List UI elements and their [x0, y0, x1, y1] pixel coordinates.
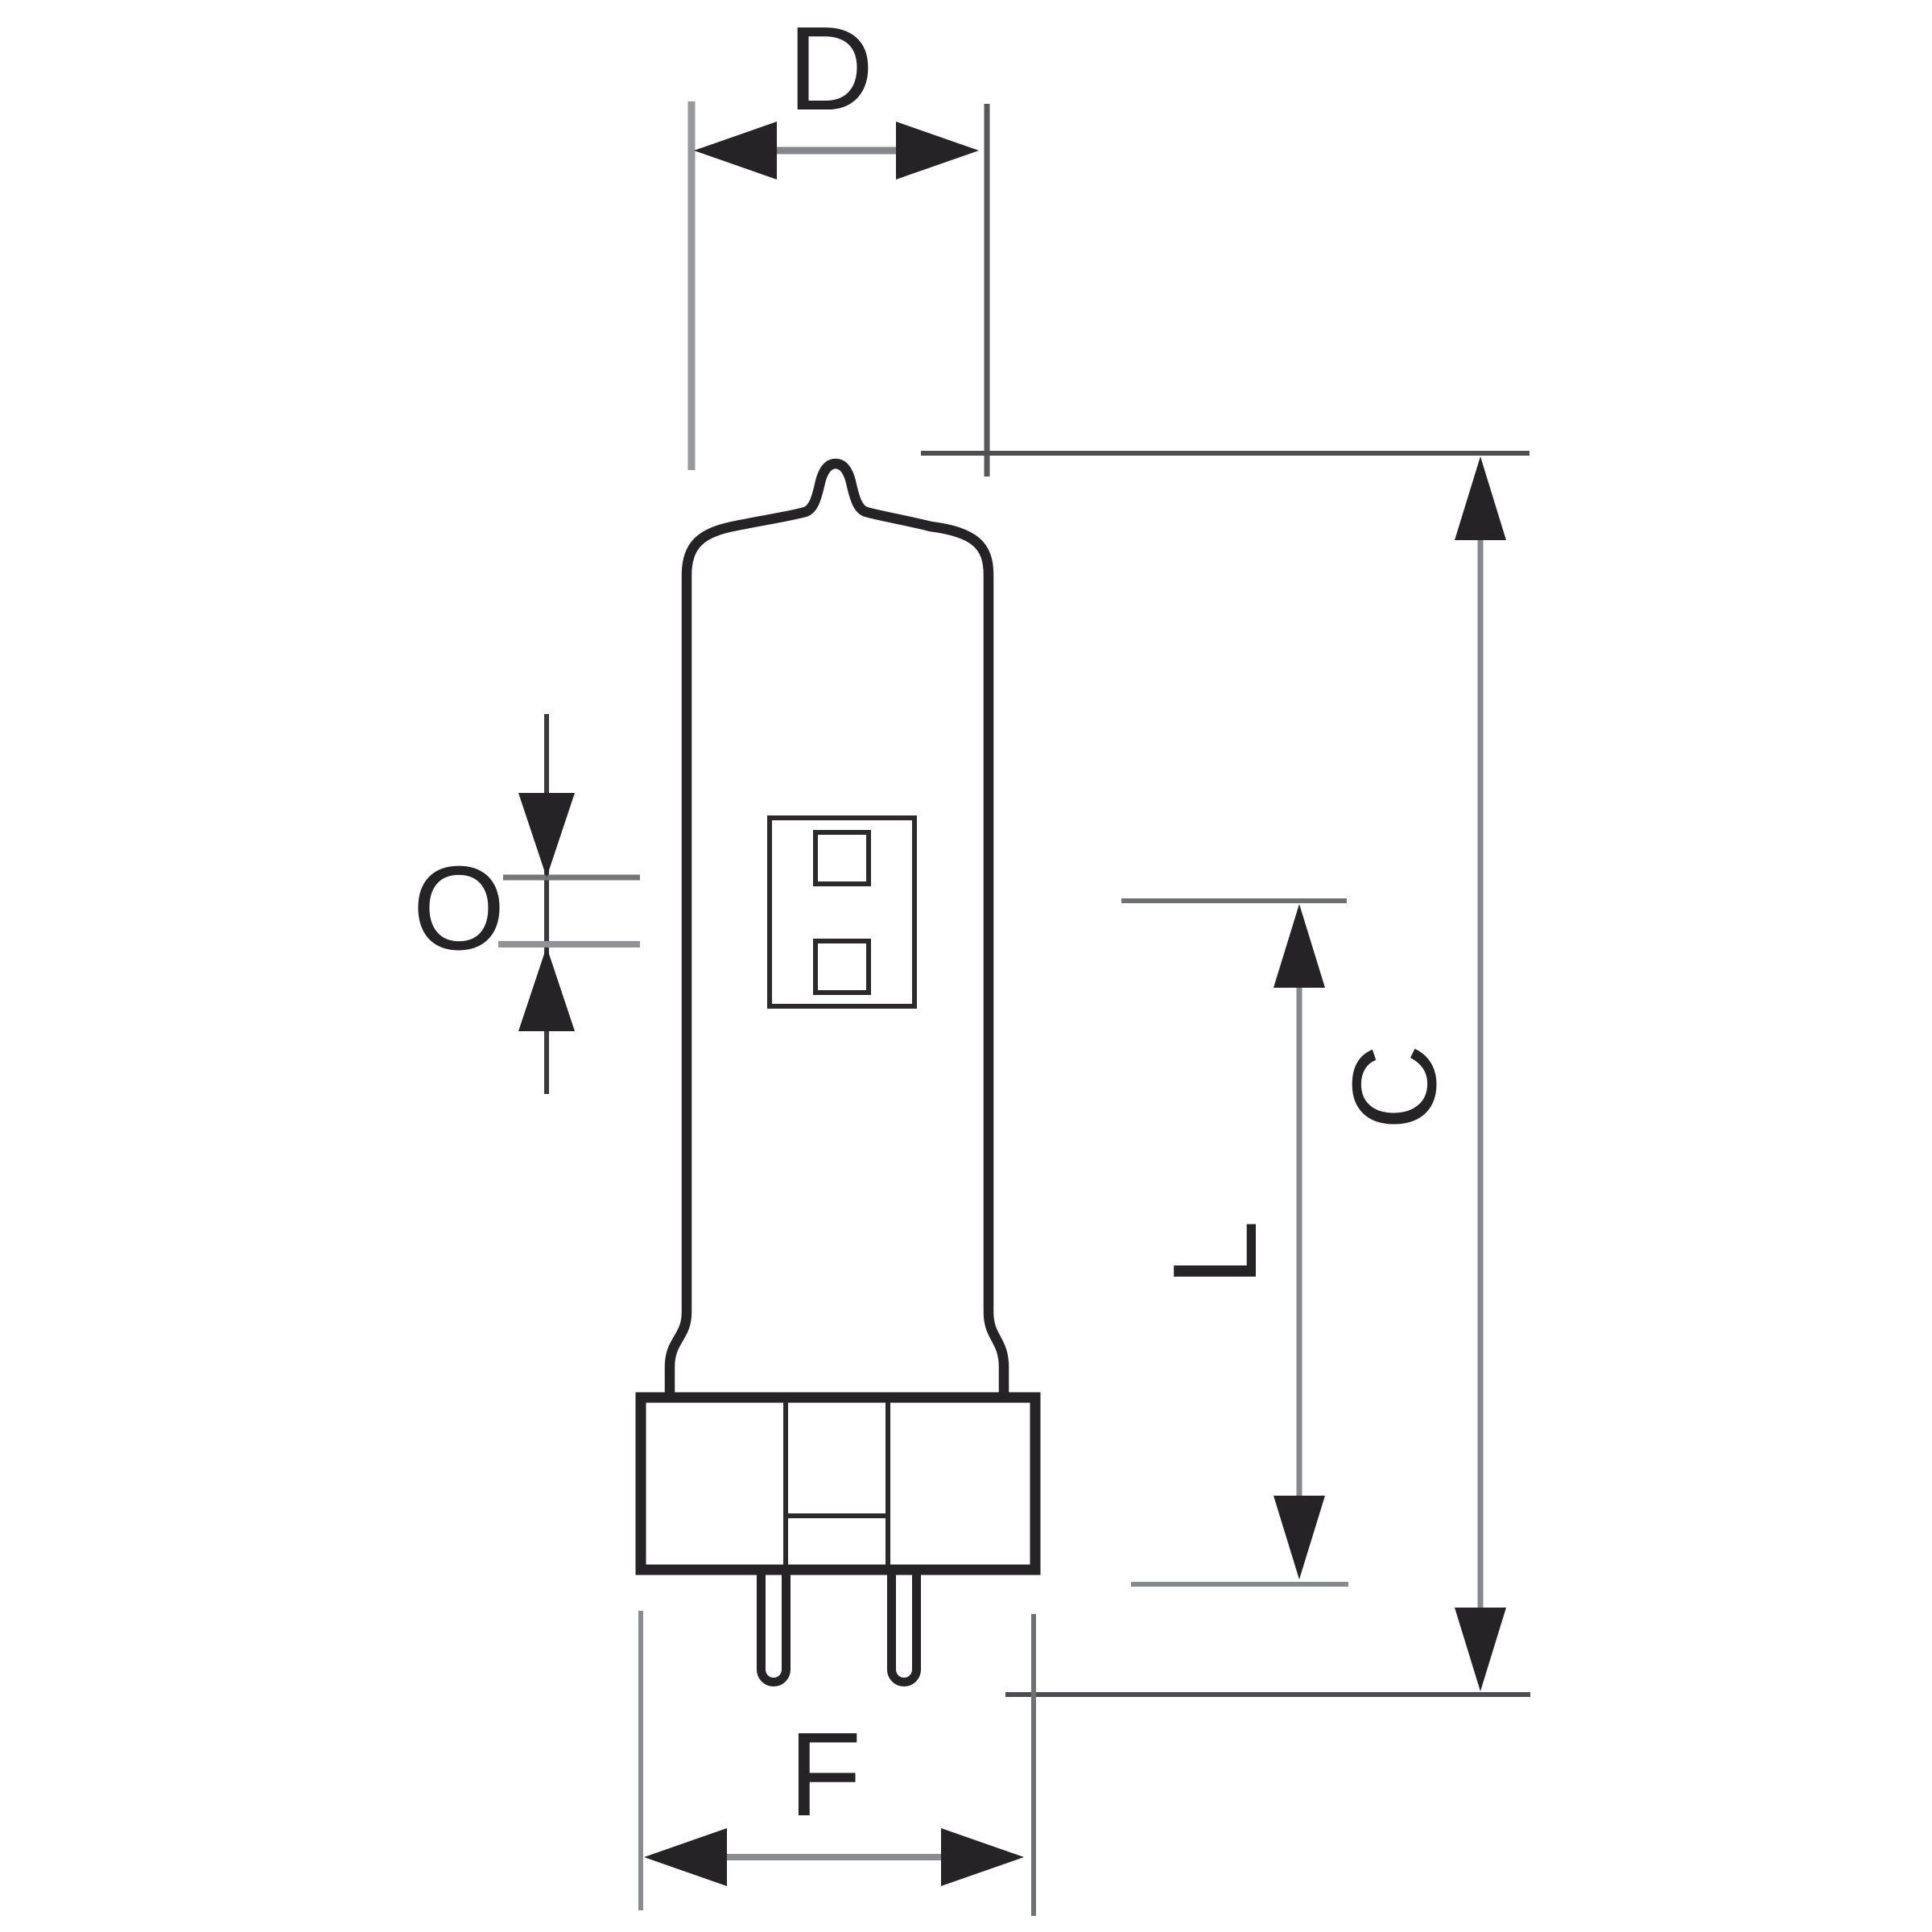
svg-text:O: O: [412, 842, 505, 975]
svg-text:C: C: [1328, 1044, 1461, 1130]
svg-text:F: F: [789, 1708, 861, 1841]
svg-text:L: L: [1149, 1220, 1282, 1286]
svg-text:D: D: [788, 2, 874, 135]
